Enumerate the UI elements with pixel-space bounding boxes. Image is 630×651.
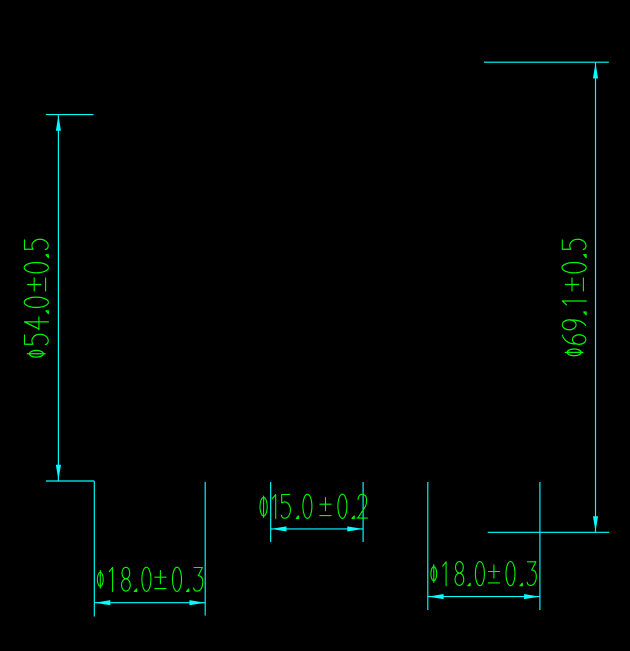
dimension line Φ15.0 (horizontal): [271, 528, 363, 530]
arrowhead right, lower-right Φ18.0: [524, 594, 540, 599]
arrowhead left, Φ15.0: [271, 526, 287, 531]
arrowhead down, Φ69.1 bottom: [593, 516, 598, 532]
extension line: top of Φ54.0 dimension: [46, 114, 94, 116]
dimension text Φ18.0±0.3 (lower left): [97, 567, 202, 591]
dimension line Φ54.0 (vertical, left): [57, 115, 59, 480]
arrowhead left, lower-right Φ18.0: [428, 594, 444, 599]
extension line: top of Φ69.1 dimension: [484, 61, 609, 63]
arrowhead up, Φ54.0 top: [56, 115, 61, 131]
extension line: right of lower-left Φ18.0 (vertical): [204, 482, 206, 616]
extension line: left of lower-right Φ18.0 (vertical): [427, 482, 429, 610]
extension line: bottom of Φ54.0 / step: [46, 480, 94, 482]
arrowhead down, Φ54.0 bottom: [56, 465, 61, 481]
dimension text Φ69.1±0.5 (right) (rotated): [562, 239, 586, 355]
arrowhead right, Φ15.0: [347, 526, 363, 531]
extension line: right of Φ15.0 (vertical): [362, 482, 364, 542]
dimension line Φ69.1 (vertical, right): [595, 63, 597, 532]
arrowhead left, lower-left Φ18.0: [95, 600, 111, 605]
dimension line lower-left Φ18.0 (horizontal): [95, 602, 206, 604]
arrowhead up, Φ69.1 top: [593, 63, 598, 79]
dimension text Φ18.0±0.3 (lower right): [431, 562, 536, 586]
extension line: left of Φ15.0 (vertical): [270, 482, 272, 542]
extension line: right of lower-right Φ18.0 (vertical): [539, 482, 541, 610]
dimension text Φ15.0±0.2 (middle): [260, 494, 367, 518]
extension line: bottom of Φ69.1 dimension: [488, 531, 610, 533]
dimension text Φ54.0±0.5 (left) (rotated): [24, 239, 48, 357]
arrowhead right, lower-left Φ18.0: [189, 600, 205, 605]
dimension line lower-right Φ18.0 (horizontal): [428, 596, 540, 598]
extension line: left of lower-left Φ18.0 (vertical): [93, 481, 95, 617]
